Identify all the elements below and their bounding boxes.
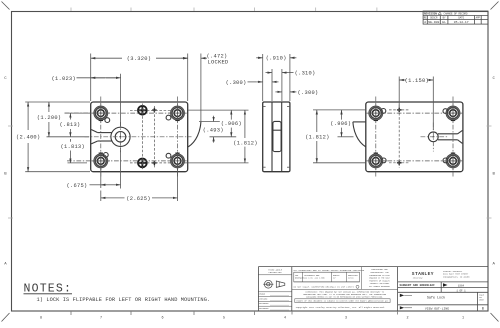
- side view body outline: [263, 102, 290, 172]
- zone tick marks bottom: [71, 311, 398, 315]
- title block frame: [258, 267, 488, 311]
- ext line right top: [188, 109, 248, 111]
- svg-text:VIEW OUT-LINE: VIEW OUT-LINE: [425, 306, 449, 310]
- svg-text:ALL DIMENSIONS ARE IN INCHES U: ALL DIMENSIONS ARE IN INCHES UNLESS OTHE…: [294, 269, 365, 272]
- ext line right bottom: [183, 162, 249, 164]
- svg-text:APPROVED: APPROVED: [259, 302, 269, 305]
- svg-text:CAD: CAD: [295, 274, 298, 277]
- dimension (.675): [90, 148, 121, 189]
- svg-text:SHEET: SHEET: [479, 300, 484, 302]
- svg-text:(1.200): (1.200): [37, 115, 61, 121]
- drawing name row: [400, 306, 404, 309]
- ext line right center: [210, 136, 237, 138]
- svg-text:REVISION: REVISION: [424, 12, 437, 15]
- svg-text:CHECKED: CHECKED: [259, 297, 268, 300]
- phillips screw bottom: [138, 159, 147, 168]
- ext line top edge left: [25, 101, 90, 103]
- legal paragraph: [303, 291, 386, 299]
- dimension (2.400): [27, 102, 29, 172]
- mounting hole front top-left: [92, 104, 110, 123]
- center hole crosshair: [85, 122, 192, 152]
- centerline row top holes: [65, 112, 187, 114]
- svg-text:(1.812): (1.812): [305, 135, 329, 141]
- back bolt tab: [353, 121, 366, 123]
- svg-text:(1.150): (1.150): [405, 78, 429, 84]
- ext line left row top: [65, 112, 91, 114]
- svg-text:FRACTIONS: FRACTIONS: [348, 274, 358, 277]
- dimension (1.200): [48, 102, 50, 137]
- svg-text:APPROVED: APPROVED: [259, 307, 269, 310]
- back node marker top: [397, 108, 402, 113]
- center hole: [111, 127, 130, 146]
- tolerance box: [292, 267, 398, 290]
- mounting hole front top-right: [166, 104, 187, 122]
- svg-text:DRAWING IS THE SOLE: DRAWING IS THE SOLE: [369, 277, 390, 280]
- dimension (2.625): [101, 169, 178, 201]
- svg-text:Copyright 2017 Stanley Securit: Copyright 2017 Stanley Security Solution…: [296, 306, 385, 309]
- keyway slot left: [91, 130, 112, 144]
- projection box: [258, 275, 291, 306]
- svg-text:EL: EL: [442, 20, 446, 24]
- back node row dash top: [389, 109, 410, 111]
- phillips screw top: [138, 106, 147, 115]
- svg-text:ANGLES: ANGLES: [333, 274, 339, 277]
- bolt line A: [199, 121, 220, 123]
- mounting hole back top-left: [367, 104, 386, 122]
- back view plate outline: [366, 102, 463, 172]
- svg-text:(.310): (.310): [295, 71, 316, 77]
- mounting hole back bottom-left: [367, 152, 387, 170]
- svg-text:DRAWN: DRAWN: [259, 293, 265, 296]
- back centerline col left: [375, 97, 377, 178]
- svg-text:ALL RIGHTS RESERVED: ALL RIGHTS RESERVED: [369, 285, 390, 288]
- svg-text:3: 3: [345, 317, 347, 321]
- svg-text:5: 5: [223, 317, 225, 321]
- dimension (.300) left: [248, 81, 279, 83]
- svg-text:PROPRIETARY AND: PROPRIETARY AND: [371, 268, 387, 271]
- dimension (.910): [256, 54, 296, 101]
- svg-text:Security: Security: [413, 276, 423, 279]
- ext line left center: [47, 136, 90, 138]
- dimension (1.150): [399, 77, 433, 131]
- phillips row dash bottom: [130, 162, 172, 164]
- svg-text:(.906): (.906): [221, 121, 242, 127]
- svg-text:05-12-17: 05-12-17: [454, 20, 469, 24]
- svg-text:NE-908: NE-908: [428, 20, 439, 24]
- node marker top: [152, 108, 157, 113]
- centerline tick crosses back: [374, 121, 456, 154]
- svg-text:(.910): (.910): [266, 56, 287, 62]
- svg-text:CONFIDENTIAL: THE: CONFIDENTIAL: THE: [370, 271, 388, 274]
- svg-text:DO NOT SCALE. UNVERIFIED DECIM: DO NOT SCALE. UNVERIFIED DECIMALS IN USE…: [294, 286, 355, 289]
- svg-text:INDIANAPOLIS, IN 46250: INDIANAPOLIS, IN 46250: [443, 275, 470, 278]
- zone digits bottom margin: [40, 317, 464, 321]
- svg-text:1964: 1964: [458, 284, 465, 287]
- svg-text:CHANGE OF RECORD: CHANGE OF RECORD: [444, 12, 469, 15]
- dimension (3.320): [91, 54, 188, 102]
- svg-text:±1°: ±1°: [333, 278, 336, 280]
- svg-text:SARGENT AND GREENLEAF: SARGENT AND GREENLEAF: [400, 284, 436, 287]
- lock bolt tab arc right: [188, 122, 201, 147]
- svg-text:4: 4: [284, 317, 286, 321]
- svg-text:.XX ±.01 .XXX ±.005: .XX ±.01 .XXX ±.005: [304, 278, 325, 280]
- svg-text:(.493): (.493): [203, 127, 224, 133]
- svg-text:6: 6: [161, 317, 163, 321]
- svg-text:A: A: [424, 20, 426, 24]
- dimension (.310): [266, 69, 294, 101]
- svg-text:(3.320): (3.320): [127, 56, 151, 62]
- centerline col left holes: [100, 97, 102, 178]
- dimension (.906) back: [341, 110, 343, 137]
- svg-text:(2.625): (2.625): [126, 196, 150, 202]
- company row: [398, 282, 488, 292]
- front view plate outline: [91, 102, 188, 172]
- back ext line left top: [313, 109, 365, 111]
- svg-text:1) LOCK IS FLIPPABLE FOR LEFT: 1) LOCK IS FLIPPABLE FOR LEFT OR RIGHT H…: [37, 297, 211, 303]
- svg-text:8: 8: [40, 317, 42, 321]
- back node marker bottom: [397, 161, 402, 166]
- ext line bottom edge left: [25, 171, 90, 173]
- svg-text:(1.812): (1.812): [233, 140, 257, 146]
- mounting hole front bottom-right: [166, 152, 187, 170]
- back centerline col right: [452, 97, 454, 178]
- centerline row bottom holes: [67, 160, 186, 162]
- side view inner plate line right: [281, 102, 283, 171]
- back centerline row top: [369, 112, 460, 114]
- dimension (.906): [230, 110, 232, 137]
- back center hole crosshair: [421, 123, 449, 152]
- back centerline node col: [398, 105, 400, 169]
- revision row A: [424, 20, 468, 24]
- svg-text:Export of this document is sub: Export of this document is subject to co…: [296, 300, 388, 303]
- node marker bottom: [152, 161, 157, 166]
- revision table frame: [423, 11, 488, 24]
- svg-text:7: 7: [100, 317, 102, 321]
- svg-text:PROJECTION: PROJECTION: [269, 271, 283, 274]
- side view chamfer ticks: [263, 107, 290, 168]
- back center hole: [428, 132, 438, 142]
- svg-text:(.813): (.813): [60, 122, 81, 128]
- svg-text:(1.023): (1.023): [52, 76, 76, 82]
- projection symbol: [263, 280, 285, 288]
- side view bolt slot: [273, 121, 281, 151]
- svg-text:2: 2: [406, 317, 408, 321]
- mounting hole front bottom-left: [92, 152, 110, 170]
- centerline col right holes: [177, 97, 179, 178]
- signature labels: [259, 293, 269, 310]
- svg-text:(.906): (.906): [330, 121, 351, 127]
- svg-text:(2.400): (2.400): [16, 135, 40, 141]
- dimension (1.812) right: [244, 110, 246, 163]
- svg-text:LOCKED: LOCKED: [208, 60, 229, 66]
- centerline col node markers: [153, 106, 155, 168]
- side view inner plate line left: [271, 102, 273, 171]
- svg-text:1 OF 1: 1 OF 1: [456, 289, 466, 292]
- back keyway slot right: [438, 130, 462, 143]
- part name row: [398, 292, 488, 311]
- ext line left node row bottom: [68, 162, 88, 164]
- svg-text:TOLERANCES ARE:: TOLERANCES ARE:: [304, 274, 320, 277]
- side view bolt divider: [273, 129, 281, 131]
- svg-text:PROPERTY OF STANLEY: PROPERTY OF STANLEY: [369, 279, 390, 282]
- dimension (1.023): [77, 74, 121, 127]
- mounting hole back bottom-right: [443, 152, 462, 170]
- dimension (1.812) back: [316, 110, 318, 163]
- back node row dash bottom: [389, 162, 410, 164]
- svg-text:Safe Lock: Safe Lock: [427, 296, 445, 301]
- svg-text:APP: APP: [476, 17, 481, 20]
- back centerline row bottom: [369, 160, 460, 162]
- svg-text:(.300): (.300): [226, 80, 247, 86]
- svg-text:SCALE: SCALE: [479, 293, 484, 296]
- svg-text:(1.813): (1.813): [61, 144, 85, 150]
- dimension (.493): [213, 116, 215, 143]
- phillips row dash top: [130, 109, 172, 111]
- mounting hole back top-right: [443, 104, 462, 122]
- centerline tick crosses front: [99, 121, 180, 154]
- back ext line center: [338, 136, 354, 138]
- dimension (.300) right: [275, 91, 296, 93]
- svg-text:1: 1: [462, 317, 464, 321]
- back ext line left bottom: [313, 162, 365, 164]
- zone letters right margin: [4, 77, 495, 267]
- svg-text:(.675): (.675): [67, 183, 88, 189]
- svg-text:(.300): (.300): [298, 90, 319, 96]
- svg-text:INFORMATION IN THIS: INFORMATION IN THIS: [369, 274, 390, 277]
- proprietary text: [369, 268, 390, 288]
- svg-text:±1/16: ±1/16: [348, 278, 353, 280]
- svg-text:CONTAINED HEREIN IS NOT TO BE: CONTAINED HEREIN IS NOT TO BE REPRODUCED…: [306, 296, 383, 299]
- svg-text:SECURITY SOLUTIONS: SECURITY SOLUTIONS: [370, 283, 389, 285]
- revision column heads: [424, 17, 481, 20]
- centerline col phillips: [141, 104, 143, 171]
- dimension (.813) and (1.813): [69, 113, 71, 163]
- dimension (.472) LOCKED: [182, 54, 208, 122]
